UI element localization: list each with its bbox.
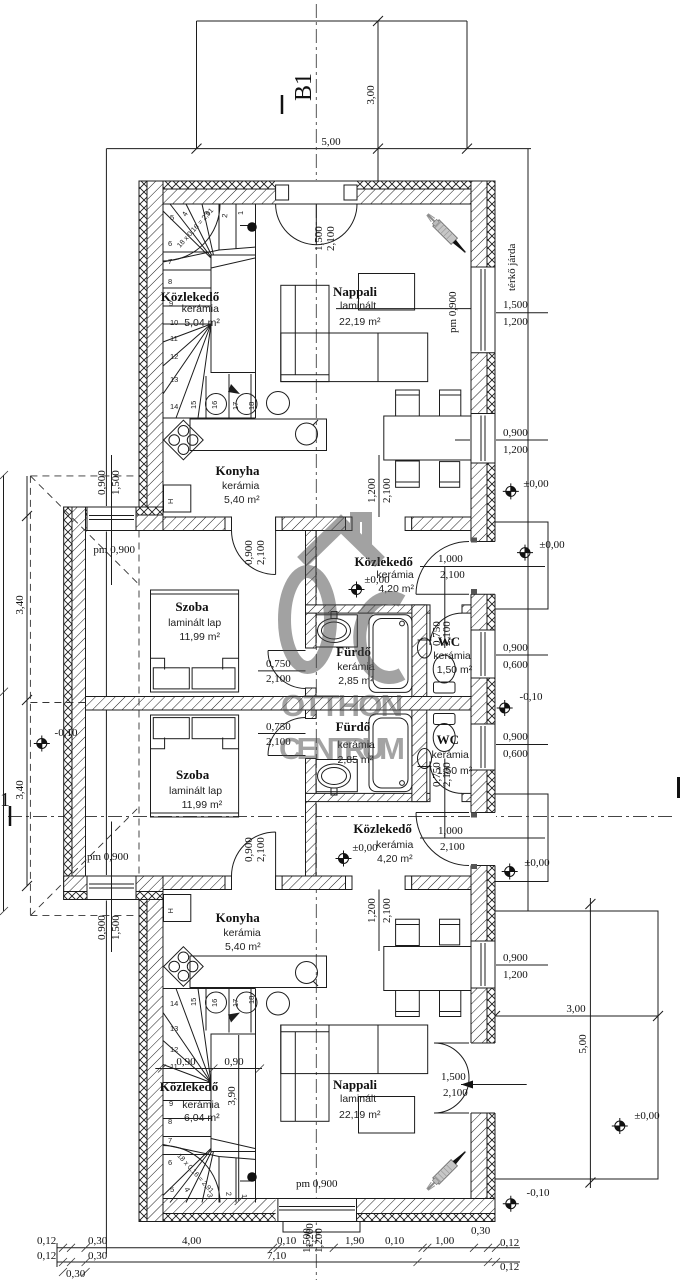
svg-text:11,99 m²: 11,99 m²	[182, 799, 223, 811]
fürdő1/wc1 wall	[412, 605, 427, 697]
exterior wall left upper	[147, 181, 163, 507]
svg-text:7: 7	[168, 257, 172, 266]
svg-text:1,500: 1,500	[503, 299, 528, 311]
chairs bottom unit	[396, 991, 420, 1017]
big terrace bottom right	[495, 911, 658, 1179]
svg-text:3,00: 3,00	[365, 85, 377, 105]
window W5 right (0,900/1,200 bottom)	[470, 941, 496, 988]
stair stool circles bottom	[206, 992, 227, 1013]
svg-text:4,00: 4,00	[182, 1235, 202, 1247]
dashed eaves outline left	[30, 476, 139, 916]
dim 3,00 vertical top	[377, 21, 379, 181]
top terrace outline	[197, 21, 468, 149]
svg-text:5: 5	[170, 213, 174, 222]
wc1 toilet	[434, 682, 456, 693]
door dim 1,000/2,100 közlekedő1	[420, 566, 545, 568]
wc1 door	[430, 613, 462, 645]
door D1 right (közlekedő 1)	[470, 542, 496, 595]
kitchen counter top unit	[190, 419, 327, 451]
svg-text:térkő járda: térkő járda	[506, 244, 518, 291]
svg-text:kerámia: kerámia	[223, 927, 261, 939]
svg-text:0,10: 0,10	[385, 1235, 405, 1247]
wc2 basin	[418, 749, 432, 769]
door dim 1,000/2,100 közlekedő2	[420, 837, 545, 839]
svg-text:0,900: 0,900	[503, 731, 528, 743]
svg-text:-0,10: -0,10	[55, 727, 78, 739]
right pad 2	[495, 794, 548, 882]
stair walkline dot top	[247, 222, 257, 232]
svg-text:5,40 m²: 5,40 m²	[224, 494, 260, 506]
svg-text:5,00: 5,00	[321, 136, 341, 148]
svg-text:0,30: 0,30	[88, 1250, 108, 1262]
stair walkline dot bottom	[247, 1172, 257, 1182]
dim 5,00 line at y=148.6	[106, 148, 531, 150]
svg-text:2,100: 2,100	[440, 841, 465, 853]
svg-text:3,40: 3,40	[14, 595, 26, 615]
wing window bottom (0,900/1,500)	[87, 875, 136, 901]
bottom dimension row 1	[57, 1247, 520, 1249]
svg-text:2,100: 2,100	[325, 226, 337, 251]
fürdő2 vanity	[316, 760, 357, 792]
dash-dot section line horizontal 1	[8, 816, 672, 818]
vertical ticks at bottom left dims	[56, 1243, 58, 1267]
svg-text:H: H	[166, 499, 175, 504]
right pad 1	[495, 522, 548, 609]
dash-dot centerline vertical B1	[315, 4, 317, 1280]
svg-text:2: 2	[224, 1191, 233, 1196]
svg-text:OTTHON: OTTHON	[281, 688, 403, 723]
staircase top unit	[163, 204, 256, 418]
svg-text:2,100: 2,100	[381, 898, 393, 923]
svg-text:0,900: 0,900	[243, 837, 255, 862]
exterior wall top	[139, 189, 495, 204]
stair tread numbers bottom	[168, 996, 256, 1199]
svg-text:6,04 m²: 6,04 m²	[184, 1112, 220, 1124]
stair dim lines bottom unit	[155, 1068, 262, 1070]
svg-text:16: 16	[210, 999, 219, 1007]
svg-text:0,900: 0,900	[243, 540, 255, 565]
svg-text:±0,00: ±0,00	[634, 1110, 660, 1122]
svg-text:0,900: 0,900	[503, 642, 528, 654]
interior wall A top (3 segments)	[163, 517, 232, 531]
svg-text:14: 14	[170, 402, 178, 411]
svg-text:0,30: 0,30	[471, 1225, 491, 1237]
svg-text:5,00: 5,00	[577, 1034, 589, 1054]
passage dim 1,200/2,100 bottom (rotated)	[378, 890, 380, 952]
survey marker ±0,00 right 3	[502, 864, 518, 880]
fridge top unit	[164, 485, 191, 512]
exterior wall bottom	[139, 1199, 495, 1214]
svg-text:13: 13	[170, 375, 178, 384]
door dim 0,750/2,100 fürdő2	[258, 733, 306, 735]
svg-text:1,00: 1,00	[435, 1235, 455, 1247]
svg-text:1: 1	[0, 789, 10, 811]
svg-text:-0,10: -0,10	[520, 691, 543, 703]
svg-text:2,100: 2,100	[441, 621, 453, 646]
door D2 right (közlekedő 2)	[470, 813, 496, 866]
wing wall left	[72, 507, 86, 900]
svg-text:0,90: 0,90	[176, 1056, 196, 1068]
stair walkline arrows	[228, 384, 240, 394]
svg-text:0,900: 0,900	[503, 427, 528, 439]
szoba2 right wall	[306, 759, 317, 877]
svg-text:laminált: laminált	[340, 300, 376, 312]
svg-text:pm 0,900: pm 0,900	[296, 1178, 338, 1190]
svg-text:16: 16	[210, 401, 219, 409]
left dim line outer	[3, 475, 5, 911]
svg-text:laminált lap: laminált lap	[169, 785, 222, 797]
section mark right	[677, 777, 680, 798]
tv table bottom unit	[359, 1097, 415, 1134]
svg-text:5: 5	[170, 1185, 174, 1194]
svg-text:±0,00: ±0,00	[523, 478, 549, 490]
svg-text:-0,10: -0,10	[527, 1187, 550, 1199]
svg-text:12: 12	[170, 1045, 178, 1054]
svg-text:1,000: 1,000	[438, 825, 463, 837]
svg-text:Konyha: Konyha	[215, 463, 260, 478]
bottom dimension row 3 mark	[59, 1268, 90, 1276]
szoba1 door jambs	[225, 517, 232, 531]
svg-text:18: 18	[247, 402, 256, 410]
svg-text:2,100: 2,100	[440, 569, 465, 581]
szoba2 door	[232, 832, 276, 876]
opening: window bottom center (1,500/1,200)	[276, 1198, 357, 1223]
svg-text:17: 17	[231, 999, 240, 1007]
tv table top unit	[359, 274, 415, 311]
svg-text:0,600: 0,600	[503, 659, 528, 671]
window W4 right (wc2)	[470, 724, 496, 770]
section mark B1 top	[281, 95, 284, 114]
svg-text:kerámia: kerámia	[222, 480, 260, 492]
passage dim 1,200/2,100 top (rotated)	[378, 455, 380, 517]
svg-text:±0,00: ±0,00	[539, 539, 565, 551]
svg-text:Nappali: Nappali	[333, 1077, 377, 1092]
terrace door dim 1,500/2,100 with arrow	[461, 1084, 527, 1086]
svg-text:13: 13	[170, 1024, 178, 1033]
survey marker -0,10 left	[34, 736, 50, 752]
interior wall A bottom (3 segments)	[163, 876, 232, 890]
svg-text:1,200: 1,200	[366, 478, 378, 503]
fürdő2 door	[268, 718, 306, 756]
passage jambs wall A top	[346, 517, 353, 531]
window W2 right (0,900/1,200)	[470, 414, 496, 464]
staircase bottom unit (mirror)	[163, 989, 256, 1203]
svg-text:Közlekedő: Közlekedő	[353, 821, 412, 836]
stove bottom unit	[164, 947, 204, 987]
sofa top unit	[281, 285, 329, 381]
stair stool circles top	[206, 394, 227, 415]
svg-text:1,200: 1,200	[503, 969, 528, 981]
svg-text:22,19 m²: 22,19 m²	[339, 316, 381, 328]
svg-text:1: 1	[240, 1194, 249, 1198]
svg-text:3,90: 3,90	[226, 1086, 238, 1106]
svg-text:12: 12	[170, 352, 178, 361]
party wall	[86, 697, 472, 711]
svg-text:22,19 m²: 22,19 m²	[339, 1109, 381, 1121]
svg-text:6: 6	[168, 1158, 172, 1167]
svg-text:0,12: 0,12	[37, 1250, 56, 1262]
sofa bottom unit	[281, 1025, 329, 1121]
svg-text:0,30: 0,30	[66, 1268, 86, 1280]
fürdő2/wc2 wall	[412, 710, 427, 802]
fürdő1 vanity	[316, 615, 357, 647]
survey marker -0,10 right	[497, 700, 513, 716]
svg-text:7: 7	[168, 1136, 172, 1145]
dining table bottom unit	[384, 947, 471, 991]
window W3 right (wc1)	[470, 630, 496, 678]
survey marker -0,10 bottom right	[503, 1196, 519, 1212]
bottom dimension row 2	[57, 1261, 520, 1263]
svg-text:Konyha: Konyha	[216, 910, 261, 925]
plot boundary right	[527, 149, 529, 911]
svg-text:0,30: 0,30	[88, 1235, 108, 1247]
fürdő2 south wall	[306, 793, 431, 801]
svg-text:0,10: 0,10	[277, 1235, 297, 1247]
svg-text:10: 10	[170, 318, 178, 327]
fürdő1 bathtub	[369, 615, 412, 693]
svg-text:0,12: 0,12	[500, 1261, 519, 1273]
fürdő1 north wall	[306, 605, 431, 613]
wing wall top	[64, 515, 163, 531]
dim 3,00 terrace	[495, 1015, 658, 1017]
svg-text:9: 9	[169, 1099, 173, 1108]
stove top unit	[164, 420, 204, 460]
svg-text:kerámia: kerámia	[182, 303, 220, 315]
svg-text:±0,00: ±0,00	[524, 857, 550, 869]
svg-text:pm 0,900: pm 0,900	[87, 851, 129, 863]
svg-text:2,100: 2,100	[266, 673, 291, 685]
svg-text:1,500: 1,500	[313, 226, 325, 251]
szoba1 right wall	[306, 531, 317, 649]
svg-text:Nappali: Nappali	[333, 284, 377, 299]
wc2 door	[430, 761, 462, 793]
svg-text:laminált: laminált	[340, 1093, 376, 1105]
svg-text:15: 15	[189, 998, 198, 1006]
survey marker ±0,00 terrace	[612, 1118, 628, 1134]
window dim 0,900/0,600 wc2	[471, 744, 548, 746]
fürdő1 door	[268, 651, 306, 689]
pencil mark bottom right	[424, 1148, 469, 1193]
window dim 0,900/1,200 bottom	[471, 964, 548, 966]
svg-text:±0,00: ±0,00	[364, 574, 390, 586]
svg-text:laminált lap: laminált lap	[168, 617, 221, 629]
svg-text:11: 11	[170, 334, 178, 343]
svg-text:1,200: 1,200	[503, 316, 528, 328]
svg-text:0,12: 0,12	[500, 1237, 519, 1249]
svg-text:0,600: 0,600	[503, 748, 528, 760]
svg-text:pm 0,900: pm 0,900	[447, 291, 459, 333]
svg-text:1,200: 1,200	[366, 898, 378, 923]
svg-text:2,100: 2,100	[441, 762, 453, 787]
svg-text:2,100: 2,100	[255, 837, 267, 862]
kitchen sink top unit	[296, 423, 318, 445]
door dim 0,750/2,100 fürdő1	[258, 670, 306, 672]
svg-text:CENTRUM: CENTRUM	[279, 731, 405, 766]
svg-text:0,12: 0,12	[37, 1235, 56, 1247]
doorstep bottom	[283, 1222, 360, 1233]
bed szoba2	[151, 715, 239, 817]
svg-text:8: 8	[168, 1117, 172, 1126]
svg-text:18: 18	[247, 996, 256, 1004]
svg-text:WC: WC	[437, 732, 459, 747]
svg-text:0,900: 0,900	[503, 952, 528, 964]
svg-text:14: 14	[170, 999, 178, 1008]
window dim 0,900/0,600 wc1	[471, 654, 548, 656]
svg-text:1,500: 1,500	[441, 1071, 466, 1083]
svg-text:Közlekedő: Közlekedő	[160, 1079, 219, 1094]
svg-text:Szoba: Szoba	[175, 599, 209, 614]
kitchen sink bottom unit	[296, 962, 318, 984]
exterior wall right	[471, 181, 487, 1222]
fridge bottom unit	[164, 895, 191, 922]
exterior wall left lower	[147, 900, 163, 1222]
plot boundary left	[105, 149, 107, 1254]
fürdő2 sink	[318, 764, 351, 788]
svg-text:8: 8	[168, 277, 172, 286]
chairs top unit	[396, 390, 420, 416]
fürdő1 sink	[318, 619, 351, 643]
svg-text:5,04 m²: 5,04 m²	[184, 317, 220, 329]
opening: entrance door top	[276, 180, 357, 205]
svg-text:2,100: 2,100	[443, 1087, 468, 1099]
svg-text:3,00: 3,00	[566, 1003, 586, 1015]
svg-text:6: 6	[168, 239, 172, 248]
svg-text:5,40 m²: 5,40 m²	[225, 941, 261, 953]
svg-text:4,20 m²: 4,20 m²	[377, 853, 413, 865]
wing wall bottom	[64, 876, 163, 892]
left dim line 3,40	[26, 476, 28, 886]
svg-text:±0,00: ±0,00	[352, 842, 378, 854]
svg-text:kerámia: kerámia	[376, 839, 414, 851]
door D3 terrace (1,500/2,100)	[470, 1043, 496, 1113]
kitchen counter bottom unit	[190, 956, 327, 988]
dim 5,00 terrace vertical	[589, 898, 591, 1188]
window dim 1,500/1,200	[471, 312, 548, 314]
bed szoba1	[151, 590, 239, 692]
svg-text:0,90: 0,90	[224, 1056, 244, 1068]
svg-text:3,40: 3,40	[14, 780, 26, 800]
svg-text:11,99 m²: 11,99 m²	[179, 631, 220, 643]
svg-text:7,10: 7,10	[267, 1250, 287, 1262]
svg-text:2,85 m²: 2,85 m²	[338, 675, 374, 687]
svg-text:1,000: 1,000	[438, 553, 463, 565]
szoba1 door	[232, 531, 276, 575]
svg-text:0,900: 0,900	[96, 915, 108, 940]
stair tread numbers top	[168, 207, 256, 411]
wc2 toilet	[434, 714, 456, 725]
svg-text:1,90: 1,90	[345, 1235, 365, 1247]
svg-text:2,100: 2,100	[255, 540, 267, 565]
survey marker ±0,00 right 2	[517, 545, 533, 561]
window W1 right (1,500/1,200)	[470, 267, 496, 353]
wing window top (0,900/1,500)	[87, 506, 136, 532]
wc1 basin	[418, 638, 432, 658]
watermark OC Otthon Centrum logo	[279, 517, 405, 766]
svg-text:1: 1	[236, 211, 245, 215]
svg-text:1,200: 1,200	[503, 444, 528, 456]
svg-text:B1: B1	[291, 73, 317, 101]
fürdő2 bathtub	[369, 714, 412, 792]
dining table top unit	[384, 416, 471, 460]
window dim 0,900/1,200 top	[455, 439, 548, 441]
svg-text:1,200: 1,200	[304, 1223, 316, 1248]
pencil mark top right	[424, 211, 469, 256]
svg-text:2: 2	[220, 213, 229, 218]
svg-text:kerámia: kerámia	[433, 650, 471, 662]
entrance door top arcs	[276, 204, 357, 245]
svg-text:Közlekedő: Közlekedő	[161, 289, 220, 304]
svg-text:kerámia: kerámia	[182, 1099, 220, 1111]
svg-text:2,100: 2,100	[381, 478, 393, 503]
svg-text:kerámia: kerámia	[432, 749, 470, 761]
survey marker ±0,00 right 1	[503, 483, 519, 499]
svg-text:H: H	[166, 908, 175, 913]
svg-text:Szoba: Szoba	[176, 767, 210, 782]
svg-text:pm 0,900: pm 0,900	[93, 544, 135, 556]
svg-text:0,900: 0,900	[96, 470, 108, 495]
svg-text:15: 15	[189, 401, 198, 409]
svg-text:17: 17	[231, 402, 240, 410]
svg-text:1,50 m²: 1,50 m²	[437, 664, 473, 676]
